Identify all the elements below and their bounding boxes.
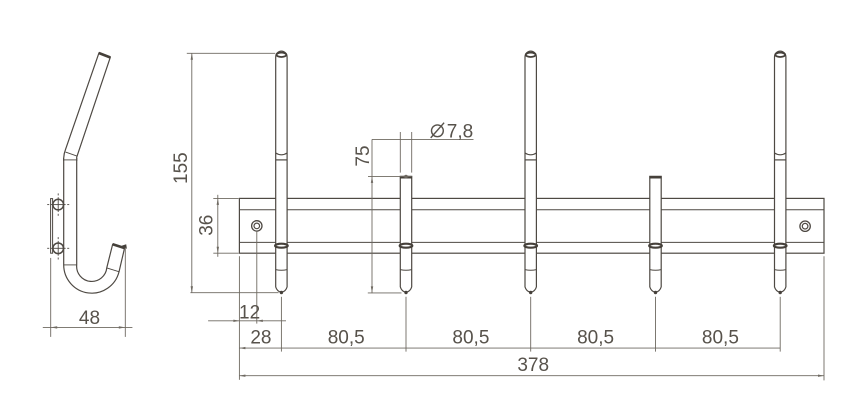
screw hole left (front view) [252,221,262,231]
tall hook pin P1 [275,51,288,294]
rail groove line lower [239,241,824,243]
dimension 378 [239,256,824,380]
bend crease upper [66,152,77,156]
extension line below pin P1 [280,297,282,352]
wall plate (side view) [51,199,53,254]
tall hook pin P3 [524,51,537,294]
svg-text:378: 378 [517,355,549,376]
svg-text:155: 155 [171,152,192,184]
short hook pin P2 [400,176,413,294]
dimension 12 [208,232,286,324]
dimension 48 [43,248,133,337]
svg-text:80,5: 80,5 [452,327,489,348]
curve/tip joint line [107,268,119,272]
dimension 155 [171,53,279,292]
mounting rail (front view) [239,198,824,253]
upper arm end cap [99,53,111,58]
screw hole right (front view) [800,221,810,231]
svg-text:80,5: 80,5 [328,327,365,348]
svg-text:80,5: 80,5 [702,327,739,348]
screw hole S2 (side view) [47,237,69,259]
svg-text:36: 36 [196,215,217,236]
extension line below pin P5 [779,297,781,352]
hook upper arm (side view) [64,53,111,161]
tall hook pin P5 [774,51,787,294]
extension line below pin P3 [530,297,532,352]
hook tip end cap [113,244,125,248]
dimension 75 [353,139,412,293]
bend crease lower [64,159,77,161]
dimension 28 and 80,5 chain [239,256,780,380]
dimension diameter 7,8 [372,122,474,179]
hook lower rod and J-curve (side view) [64,158,125,293]
extension line below pin P2 [405,297,407,352]
dimension 36 [196,195,238,257]
svg-text:80,5: 80,5 [577,327,614,348]
extension line below pin P4 [655,297,657,352]
svg-text:48: 48 [79,308,100,329]
short hook pin P4 [649,176,662,294]
rail groove line upper [239,209,824,211]
rod/curve joint line [64,264,77,266]
svg-text:75: 75 [353,145,374,166]
svg-text:12: 12 [239,302,260,323]
svg-text:28: 28 [250,327,271,348]
screw hole S1 (side view) [47,193,69,215]
hook tip arrow [122,244,127,249]
svg-text:7,8: 7,8 [447,122,473,143]
